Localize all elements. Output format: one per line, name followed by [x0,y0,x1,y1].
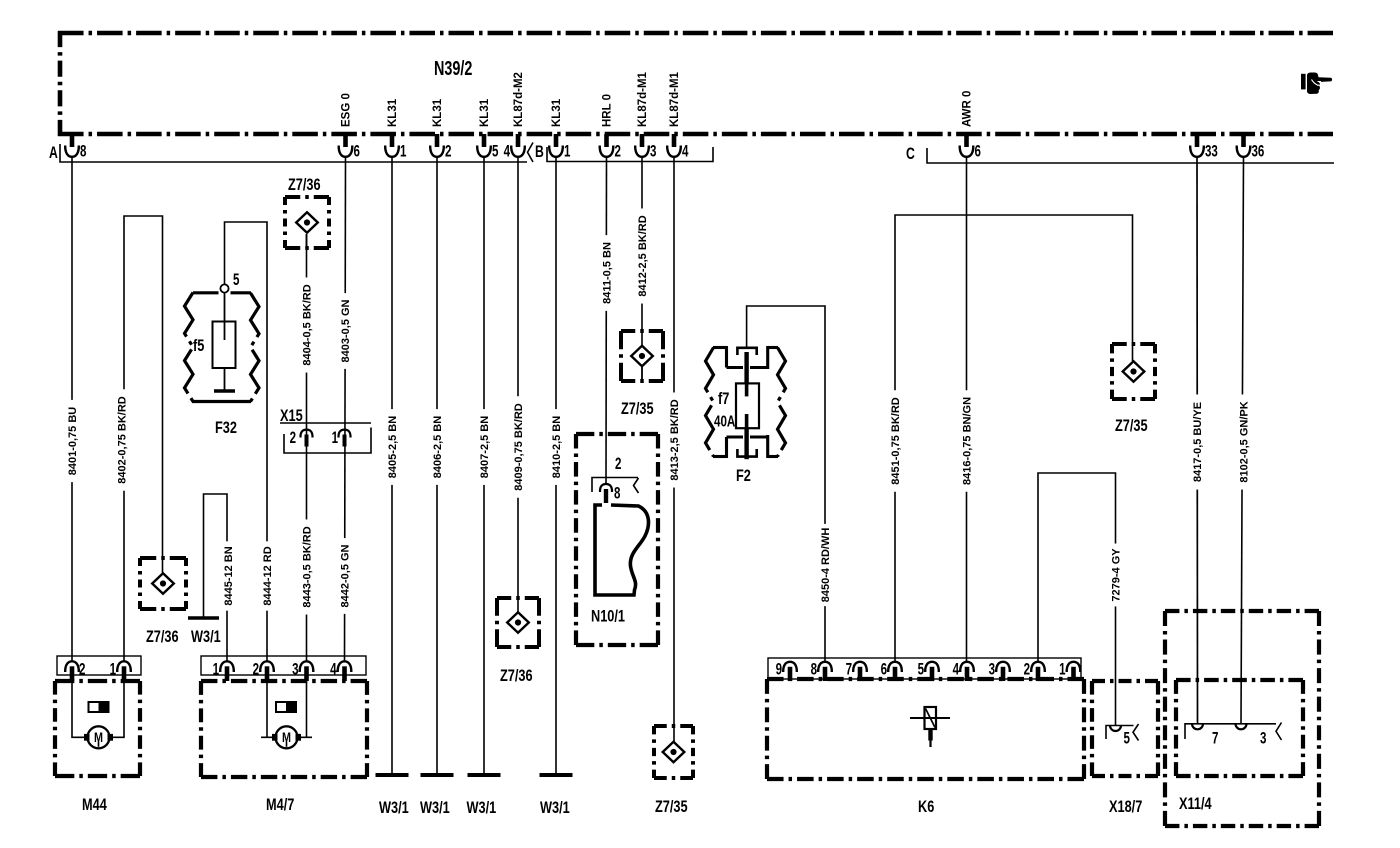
K6 pin 8 [818,662,832,672]
connector X11/4 (outer) [1165,609,1319,613]
svg-text:N10/1: N10/1 [591,607,625,626]
pin B2 [604,134,609,147]
splice Z7/35 (upper) [621,329,663,333]
svg-text:Z7/36: Z7/36 [146,627,179,646]
svg-text:B: B [535,143,544,161]
svg-text:1: 1 [400,142,406,161]
svg-text:X15: X15 [280,406,303,425]
ground W3/1 at x=484 [468,773,501,777]
svg-text:C: C [906,145,915,163]
wire 7279 K6:2 to X18/7:5 [1038,473,1116,725]
svg-text:f5: f5 [193,336,204,355]
svg-text:W3/1: W3/1 [379,798,409,817]
wire 8401 A8 to M44:2 [71,156,73,661]
svg-text:W3/1: W3/1 [540,798,570,817]
M44 motor symbol [88,726,110,748]
fuse F2 holder (torn edges) [706,348,714,457]
pin C36 [1241,134,1246,147]
svg-text:2: 2 [615,455,621,474]
svg-text:8410-2,5 BN: 8410-2,5 BN [551,416,563,478]
pin A5 [482,134,487,147]
wire labels [66,400,79,482]
svg-text:1: 1 [332,429,338,448]
pin B4 [672,134,677,147]
svg-text:8401-0,75 BU: 8401-0,75 BU [67,407,79,476]
wire 8404/8443 Z7/36 to X15:2 to M4/7:3 [306,235,308,661]
svg-text:8406-2,5 BN: 8406-2,5 BN [432,416,444,478]
svg-text:ESG 0: ESG 0 [341,93,353,127]
splice Z7/36 (middle) [497,596,539,600]
M44 indicator element [89,702,109,712]
svg-text:1: 1 [564,142,570,161]
M4/7 pin 3 [300,661,314,672]
svg-text:KL31: KL31 [387,98,399,127]
motor M4/7 (blower) [201,679,367,683]
K6 pin 7 [853,662,867,672]
M4/7 motor symbol [276,726,298,748]
splice Z7/36 (left) [140,556,186,560]
pin A8 [70,134,75,147]
svg-text:M4/7: M4/7 [266,795,294,814]
pin A1 [390,134,395,147]
svg-text:2: 2 [290,429,296,448]
svg-text:8417-0,5 BU/YE: 8417-0,5 BU/YE [1192,402,1204,482]
svg-text:8451-0,75 BK/RD: 8451-0,75 BK/RD [890,397,902,484]
M44 internal wiring [72,681,124,737]
svg-text:8413-2,5 BK/RD: 8413-2,5 BK/RD [669,399,681,480]
motor M44 (pump) [55,679,140,683]
svg-text:AWR 0: AWR 0 [962,91,974,127]
svg-text:1: 1 [213,660,219,679]
splice Z7/36 (top) [285,195,329,199]
svg-text:8411-0,5 BN: 8411-0,5 BN [602,242,614,304]
wire 8102 C36 to X11/4:3 [1241,156,1244,723]
wire 8413 B4 to Z7/35 [673,156,675,742]
svg-text:A: A [49,144,58,162]
K6 internal valve symbol [925,707,937,729]
svg-text:K6: K6 [918,797,934,816]
X18/7 pin 5 [1106,726,1134,740]
pointing-hand icon [1301,74,1306,90]
wire 8403/8442 A6 to X15:1 to M4/7:4 [345,156,346,661]
ground W3/1 at x=392 [376,773,409,777]
pin C6 [964,134,969,147]
svg-text:4: 4 [953,660,959,679]
svg-text:KL31: KL31 [432,98,444,127]
svg-text:4: 4 [330,660,336,679]
svg-text:5: 5 [492,142,498,161]
svg-text:KL31: KL31 [479,98,491,127]
svg-text:Z7/35: Z7/35 [1115,416,1148,435]
svg-text:X11/4: X11/4 [1179,794,1212,813]
X11/4 inner unit [1176,678,1303,682]
X15 pin 1 [338,430,350,438]
svg-text:2: 2 [253,660,259,679]
svg-text:7: 7 [1212,729,1218,748]
pin B1 [554,134,559,147]
svg-text:8444-12 RD: 8444-12 RD [262,546,274,605]
pin A4 [516,134,521,147]
svg-text:f7: f7 [718,389,729,408]
fuse F5 element [224,293,226,341]
connector bracket B [547,147,713,162]
pin C33 [1195,134,1200,147]
wire 8405 A1 to ground [391,156,393,774]
pin A2 [435,134,440,147]
svg-text:8416-0,75 BN/GN: 8416-0,75 BN/GN [962,397,974,485]
wire 8451 K6:6 to Z7/35 [895,215,1133,661]
M44 pin 1 [117,661,131,672]
N10/1 body (partial outline) [595,505,648,595]
connector X18/7 [1092,679,1158,683]
M4/7 pin 2 [260,661,274,672]
M4/7 pin 4 [338,661,352,672]
svg-text:KL87d-M2: KL87d-M2 [513,72,525,127]
connector bracket C [927,148,1334,163]
svg-text:W3/1: W3/1 [191,627,221,646]
svg-text:W3/1: W3/1 [467,798,497,817]
wire 8450 F2 to K6:8 [747,306,825,661]
X15 pin 2 [300,430,312,438]
wire 8406 A2 to ground [436,156,438,774]
F2 top tab [737,348,756,355]
K6 pin 6 [888,662,902,672]
control module N10/1 [576,432,658,436]
svg-text:8442-0,5 GN: 8442-0,5 GN [340,544,352,607]
svg-text:7: 7 [846,660,852,679]
M44 pin 2 [65,661,79,672]
wire 8416 C6 to K6:4 [966,156,968,661]
splice Z7/35 (right) [1112,342,1155,346]
svg-text:8412-2,5 BK/RD: 8412-2,5 BK/RD [637,215,649,296]
svg-text:F32: F32 [215,418,237,437]
svg-text:2: 2 [615,142,621,161]
svg-text:8409-0,75 BK/RD: 8409-0,75 BK/RD [513,403,525,490]
ground W3/1 at x=437 [421,773,454,777]
svg-text:6: 6 [881,660,887,679]
svg-text:Z7/35: Z7/35 [621,399,654,418]
wire 8409 A4 to Z7/36 [517,156,519,612]
wire 8410 B1 to ground [555,156,557,774]
svg-text:40A: 40A [714,413,735,430]
svg-text:8445-12 BN: 8445-12 BN [223,546,235,605]
svg-text:8404-0,5 BK/RD: 8404-0,5 BK/RD [302,284,314,365]
svg-text:Z7/36: Z7/36 [500,666,533,685]
svg-text:8: 8 [80,142,86,161]
M4/7 indicator element [276,702,296,712]
ground W3/1 at x=556 [540,773,573,777]
svg-text:2: 2 [1024,660,1030,679]
wire 8411 B2 to N10/1:8 [605,156,608,484]
svg-text:M44: M44 [82,795,107,814]
K6 pin 4 [960,662,974,672]
M4/7 pin 1 [220,661,234,672]
wire 8407 A5 to ground [483,156,485,774]
splice Z7/35 (lower) [654,724,693,728]
X11/4 pin 3 [1236,724,1247,730]
svg-text:2: 2 [79,660,85,679]
svg-text:1: 1 [110,660,116,679]
svg-text:8405-2,5 BN: 8405-2,5 BN [387,416,399,478]
svg-text:X18/7: X18/7 [1109,797,1142,816]
N10/1 connector strip [592,478,638,493]
svg-text:W3/1: W3/1 [420,798,450,817]
fuse box F32 outline (torn edges) [185,293,194,402]
K6 pin 2 [1031,662,1045,672]
svg-text:N39/2: N39/2 [434,57,472,80]
svg-text:3: 3 [292,660,298,679]
svg-text:3: 3 [1260,729,1266,748]
svg-text:KL87d-M1: KL87d-M1 [637,71,649,127]
svg-text:36: 36 [1252,142,1265,161]
svg-text:7279-4 GY: 7279-4 GY [1111,548,1123,602]
fuse F5 pin 5 [220,284,228,292]
svg-text:8403-0,5 GN: 8403-0,5 GN [340,299,352,362]
wire 8444 F5:5 to M4/7:2 [225,222,268,661]
svg-text:5: 5 [918,660,924,679]
svg-text:KL31: KL31 [551,98,563,127]
svg-text:8450-4 RD/WH: 8450-4 RD/WH [820,528,832,603]
M4/7 internal wiring [266,681,268,737]
svg-text:2: 2 [445,142,451,161]
wire 8402 M44:1 to Z7/36 [124,216,163,661]
connector bracket A [60,144,527,162]
svg-text:F2: F2 [736,466,751,485]
svg-text:Z7/36: Z7/36 [288,175,321,194]
svg-text:8407-2,5 BN: 8407-2,5 BN [479,416,491,478]
svg-text:HRL 0: HRL 0 [602,94,614,127]
wire 8412 B3 to Z7/35 [641,156,643,345]
K6 pin 9 [783,662,797,672]
svg-text:8: 8 [614,484,620,503]
ground W3/1 (left) [188,616,219,620]
F2 bottom tab [737,449,756,457]
svg-text:3: 3 [989,660,995,679]
pin A6 [343,134,348,147]
fuse F2 element [744,352,748,383]
N10/1 pin 8 [600,484,612,492]
svg-text:4: 4 [682,142,688,161]
relay K6 [767,677,1084,681]
svg-text:8: 8 [811,660,817,679]
pin B3 [640,134,645,147]
svg-text:8402-0,75 BK/RD: 8402-0,75 BK/RD [117,396,129,483]
connector X15 [280,422,371,424]
svg-text:KL87d-M1: KL87d-M1 [669,71,681,127]
X11/4 pin 7 [1192,724,1203,730]
svg-text:1: 1 [1059,660,1065,679]
svg-text:5: 5 [233,271,239,290]
wire 8445 M4/7:1 to ground W3/1 [204,494,228,661]
svg-text:8102-0,5 GN/PK: 8102-0,5 GN/PK [1239,401,1251,482]
svg-text:5: 5 [1124,729,1130,748]
svg-text:6: 6 [354,142,360,161]
svg-text:33: 33 [1205,142,1218,161]
control unit N39/2 (dash-dot frame, open right) [58,31,1333,36]
wire 8417 C33 to X11/4:7 [1196,156,1199,723]
svg-text:Z7/35: Z7/35 [655,797,688,816]
svg-text:3: 3 [650,142,656,161]
svg-text:6: 6 [975,142,981,161]
K6 pin 3 [996,662,1010,672]
K6 pin 5 [925,662,939,672]
svg-text:9: 9 [776,660,782,679]
svg-text:8443-0,5 BK/RD: 8443-0,5 BK/RD [302,526,314,607]
svg-text:4: 4 [504,142,510,161]
K6 pin 1 [1067,662,1081,672]
X11/4 pin bar [1185,724,1276,739]
